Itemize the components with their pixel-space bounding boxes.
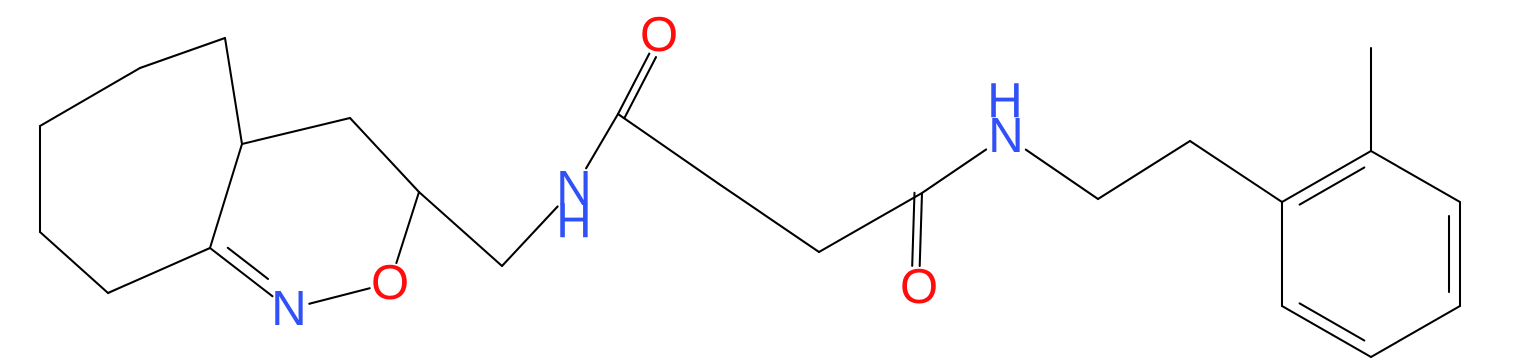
oxazine C3=N double bond [210, 248, 272, 296]
svg-text:O: O [640, 8, 678, 62]
cycloheptane bond A5-A6 [140, 38, 225, 68]
cycloheptane bond A2-A3 [40, 232, 108, 293]
bond C1-C2 [618, 114, 719, 184]
svg-text:N: N [988, 109, 1023, 163]
carbonyl C1=O1 [618, 54, 656, 118]
bond Ca-CH2 [419, 192, 502, 266]
oxazine N-O bond [309, 288, 369, 304]
benzene double bond R3=B2 [1282, 151, 1371, 205]
cycloheptane bond C3-A2 [108, 248, 210, 293]
benzene double bond B5=B6 [1282, 303, 1371, 357]
bond NH-C1 [586, 114, 618, 168]
benzene bond B4-B5 [1371, 306, 1460, 357]
cycloheptane bond A3-A4 [39, 126, 41, 232]
bond NH-R1 [1026, 150, 1098, 199]
carbonyl C4p=O2 [912, 193, 922, 266]
cycloheptane bond A6-Cc [225, 38, 242, 144]
svg-text:O: O [371, 256, 409, 310]
bond C4p-NH [922, 150, 986, 194]
svg-text:N: N [271, 282, 306, 336]
benzene bond B2-B3 [1371, 151, 1460, 202]
methyl bond [1370, 48, 1372, 151]
oxazine ring bond Cc-C3 [210, 144, 242, 248]
bond C3p-C4p [819, 193, 922, 252]
bond R1-R2 [1098, 141, 1190, 199]
benzene double bond B3=B4 [1449, 202, 1460, 306]
bond CH2-NH [502, 207, 558, 267]
bond R2-R3 [1190, 141, 1282, 202]
benzene bond B6-R3 [1281, 202, 1283, 306]
oxazine Ca-Cb bond [350, 118, 419, 192]
cycloheptane bond A4-A5 [40, 68, 140, 126]
oxazine O-Ca bond [396, 192, 419, 263]
svg-text:O: O [900, 260, 938, 314]
bond C2-C3p [719, 184, 819, 252]
oxazine Cb-Cc bond [242, 118, 350, 144]
svg-text:H: H [556, 194, 591, 248]
